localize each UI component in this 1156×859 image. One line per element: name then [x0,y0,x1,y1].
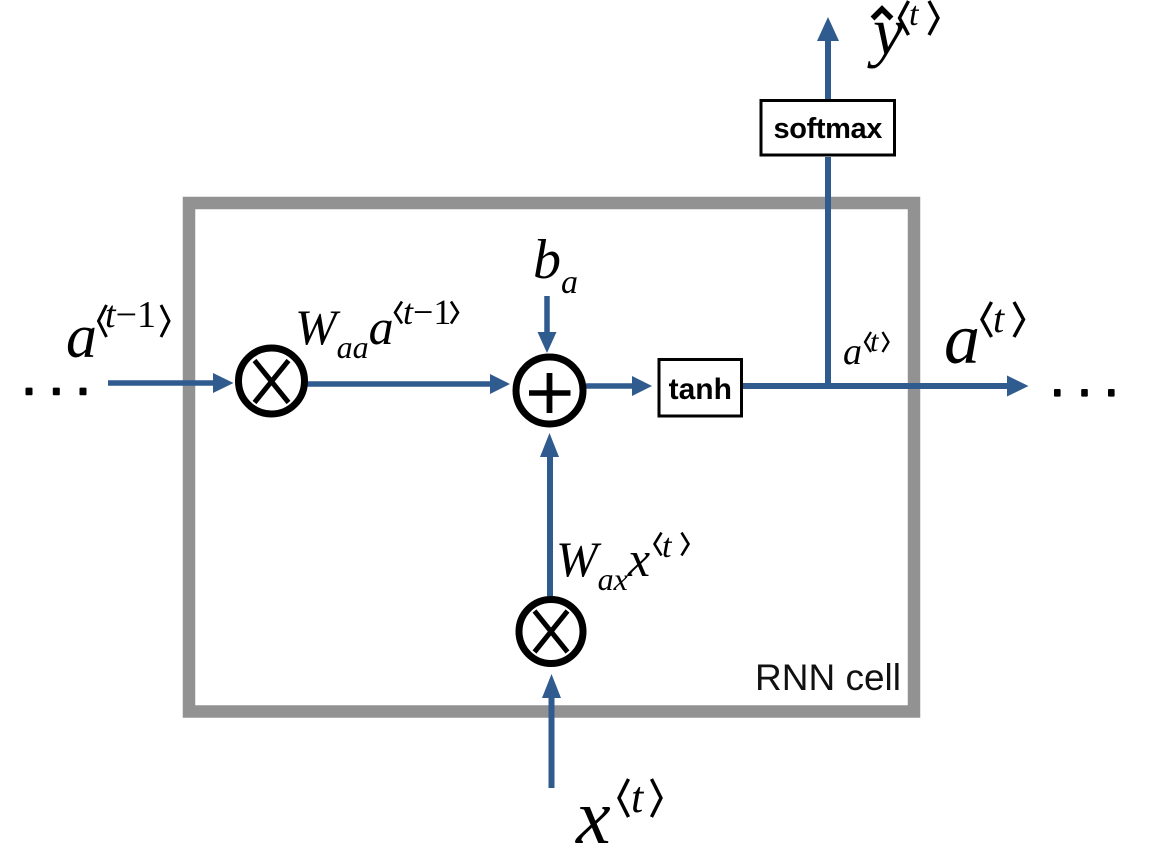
label t superscript (small a) [870,327,878,357]
angle brackets: a<t> right superscript [982,302,1024,337]
angle brackets: W_aa a<t-1> superscript [395,302,458,324]
wire x<t> input from bottom [542,674,561,788]
wire softmax to y-hat output [817,17,839,99]
wire add node to tanh [586,376,652,396]
label t superscript (W_ax) [662,530,671,564]
label softmax [761,101,895,158]
wire multiply M2 to add node [540,433,559,596]
wire branch up to softmax [825,157,831,389]
multiply node M1 (circle-X) [239,348,305,414]
angle brackets: y-hat<t> superscript [900,1,939,35]
label tanh [659,360,742,419]
wire tanh to a<t> output (right horizontal) [743,376,1029,397]
label t-1 superscript (W_aa) [403,294,451,330]
wire multiply M1 to add node [307,374,510,394]
label a<t-1> (left input) [66,306,97,368]
wire b_a bias input [538,296,557,353]
right ellipsis dots [1054,389,1115,397]
label W_aa a<t-1> [295,302,394,363]
label t-1 superscript (left input) [105,296,156,334]
add node S1 (circle-plus) [516,357,583,424]
label x<t> (bottom input) [576,778,611,856]
label b_a [533,232,578,300]
hat accent over y [873,9,892,19]
label small a<t> (branch) [843,333,862,371]
angle brackets: W_ax x<t> superscript [655,533,689,556]
wire a<t-1> input (left horizontal) [108,373,234,393]
softmax box [761,101,895,156]
label a<t> (right output) [944,303,980,375]
angle brackets: x<t> bottom superscript [619,779,661,817]
tanh box [659,360,742,417]
label t superscript (right a) [993,299,1004,339]
angle brackets: left a<t-1> superscript [99,305,170,337]
multiply node M2 (circle-X) [519,600,583,664]
RNN cell box border [189,203,914,712]
label t superscript (y-hat) [909,0,918,32]
left ellipsis dots [26,388,87,396]
label t superscript (bottom x) [631,776,643,820]
label W_ax x<t> [556,534,650,595]
angle brackets: small a<t> superscript [865,332,889,352]
label RNN cell [755,659,901,696]
label y-hat<t> (top output) [873,0,903,65]
